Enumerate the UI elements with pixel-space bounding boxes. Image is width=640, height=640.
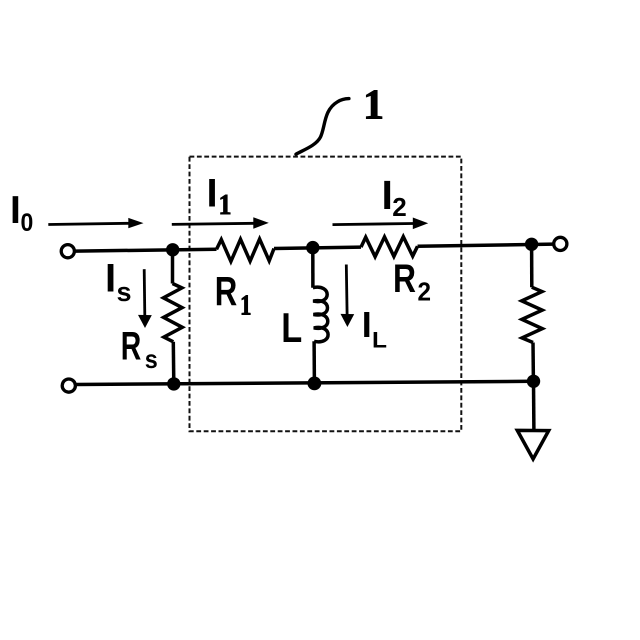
node B (top middle junction) [306,241,319,254]
inductor L branch wire top [311,248,315,288]
svg-text:s: s [117,277,132,307]
svg-text:0: 0 [21,209,34,237]
svg-text:R: R [215,268,238,314]
svg-text:1: 1 [219,190,232,221]
arrow I0 [48,218,143,228]
right load resistor wire bottom [531,343,535,382]
svg-text:I: I [382,172,393,218]
svg-text:1: 1 [363,82,384,129]
resistor Rs branch wire top [171,250,175,284]
svg-text:L: L [372,327,387,352]
wire R1 to R2 (through node B) [274,247,361,248]
terminal top-left [61,245,74,258]
resistor Rs [163,284,182,342]
svg-text:R: R [121,325,142,369]
svg-text:I: I [10,189,21,232]
svg-text:I: I [207,171,218,215]
node A (top left junction) [166,243,179,256]
arrow IL [341,265,355,328]
inductor L coil [313,287,328,342]
svg-text:2: 2 [418,277,432,307]
svg-text:2: 2 [392,192,407,222]
node E (bottom middle junction) [308,377,322,391]
resistor Rs branch wire bottom [172,342,176,384]
svg-text:L: L [281,304,302,351]
resistor R2 [361,237,418,257]
right load resistor [522,287,543,342]
dashed box (network 1 outline) [190,157,462,432]
arrow I2 [333,218,429,230]
svg-text:s: s [145,344,158,374]
arrow Is [138,269,152,328]
resistor R1 [217,239,275,261]
right load resistor branch wire top [530,244,534,287]
node F (bottom right junction) [527,375,540,388]
terminal top-right [554,237,567,250]
wire R2 to right terminal [418,244,554,246]
bottom wire [76,381,534,384]
wire top-left (terminal to node A) [75,249,216,251]
wire to ground [532,381,536,430]
svg-text:I: I [362,304,372,345]
node C (top right junction) [525,238,538,251]
inductor L branch wire bottom [312,341,316,383]
ground [517,430,548,459]
node D (bottom left junction) [167,377,180,390]
arrow I1 [172,217,269,229]
svg-text:1: 1 [240,290,252,322]
svg-text:I: I [105,256,116,300]
svg-text:R: R [393,257,416,301]
leader squiggle to label 1 [296,99,349,155]
terminal bottom-left [62,379,75,392]
